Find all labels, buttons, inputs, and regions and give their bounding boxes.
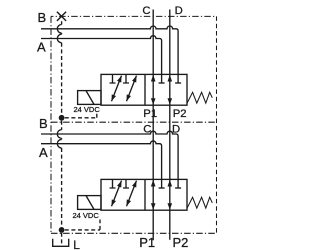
dashed wire from lower node to solenoid S2: [65, 220, 100, 230]
svg-text:A: A: [37, 40, 46, 55]
valve U1 return spring: [187, 92, 212, 103]
svg-text:C: C: [142, 5, 150, 17]
svg-text:P2: P2: [173, 235, 189, 250]
svg-text:B: B: [39, 116, 48, 131]
manifold boundary top edge: [51, 15, 217, 17]
valve U1 right position blocked port bar at port 2: [159, 82, 165, 84]
plugged port X on upper B line: [57, 12, 66, 21]
valve U2 body: [101, 179, 187, 210]
svg-text:P2: P2: [173, 108, 187, 120]
wire A lower line 2 (hops over C, bends down to valve port 2): [41, 141, 162, 188]
svg-text:D: D: [175, 5, 183, 17]
hop arc over lower A line 2: [57, 139, 61, 148]
manifold boundary bottom edge: [51, 232, 217, 234]
valve U2 left position crossed arrow 2: [127, 181, 137, 207]
wire A upper line 2 (hops over C, bends down to valve port 2): [41, 36, 162, 83]
svg-text:A: A: [39, 145, 48, 160]
wire D/P2 vertical: [169, 10, 171, 240]
valve U2 right position flow arrowheads C-P1: [151, 180, 156, 187]
valve U1 left position crossed arrow 2: [127, 76, 137, 102]
svg-text:24 VDC: 24 VDC: [73, 211, 100, 220]
drain port L bracket: [53, 239, 69, 247]
dashed pilot line from plug X down (hop arcs over A lines): [61, 21, 63, 245]
wire A upper line 1 (hops over C and D, bends down to valve port 4): [41, 26, 178, 83]
valve U2 right position blocked port bar at port 4: [175, 187, 181, 189]
valve U2 return spring: [187, 197, 212, 208]
manifold boundary right edge: [216, 16, 218, 233]
valve U1 right position flow arrowheads C-P1: [151, 75, 156, 82]
solenoid S1: [78, 91, 101, 105]
solenoid S2: [78, 196, 101, 210]
svg-text:P1: P1: [143, 108, 157, 120]
hop arc over lower A line 1: [57, 130, 61, 139]
junction node dot lower: [59, 227, 65, 233]
wire A lower line 1 (hops over C and D, bends down to valve port 4): [41, 131, 178, 188]
dashed wire from node to solenoid S1: [65, 112, 97, 118]
wire C/P1 vertical: [152, 10, 154, 241]
valve U2 right position flow arrowheads D-P2: [168, 180, 173, 187]
valve U1 left position blocked port T2: [123, 74, 129, 83]
manifold boundary left edge: [50, 16, 52, 233]
valve U1 body: [101, 74, 187, 105]
svg-text:P1: P1: [139, 235, 155, 250]
valve U2 left position crossed arrow 1: [112, 181, 122, 207]
valve U2 position divider: [144, 179, 146, 210]
valve U2 left position blocked port T1: [110, 179, 116, 188]
hop arc over upper A line 1: [57, 25, 61, 34]
valve U1 left position blocked port T1: [110, 74, 116, 83]
svg-text:B: B: [38, 10, 47, 25]
valve U2 left position blocked port T2: [123, 179, 129, 188]
valve U1 position divider: [144, 74, 146, 105]
manifold section divider: [51, 121, 217, 123]
valve U1 right position flow arrowheads D-P2: [168, 75, 173, 82]
valve U1 left position crossed arrow 1: [112, 76, 122, 102]
valve U2 right position blocked port bar at port 2: [159, 187, 165, 189]
svg-text:L: L: [73, 238, 80, 250]
hop arc over upper A line 2: [57, 34, 61, 43]
svg-text:24 VDC: 24 VDC: [74, 105, 101, 114]
junction node dot upper: [59, 115, 65, 121]
valve U1 right position blocked port bar at port 4: [175, 82, 181, 84]
